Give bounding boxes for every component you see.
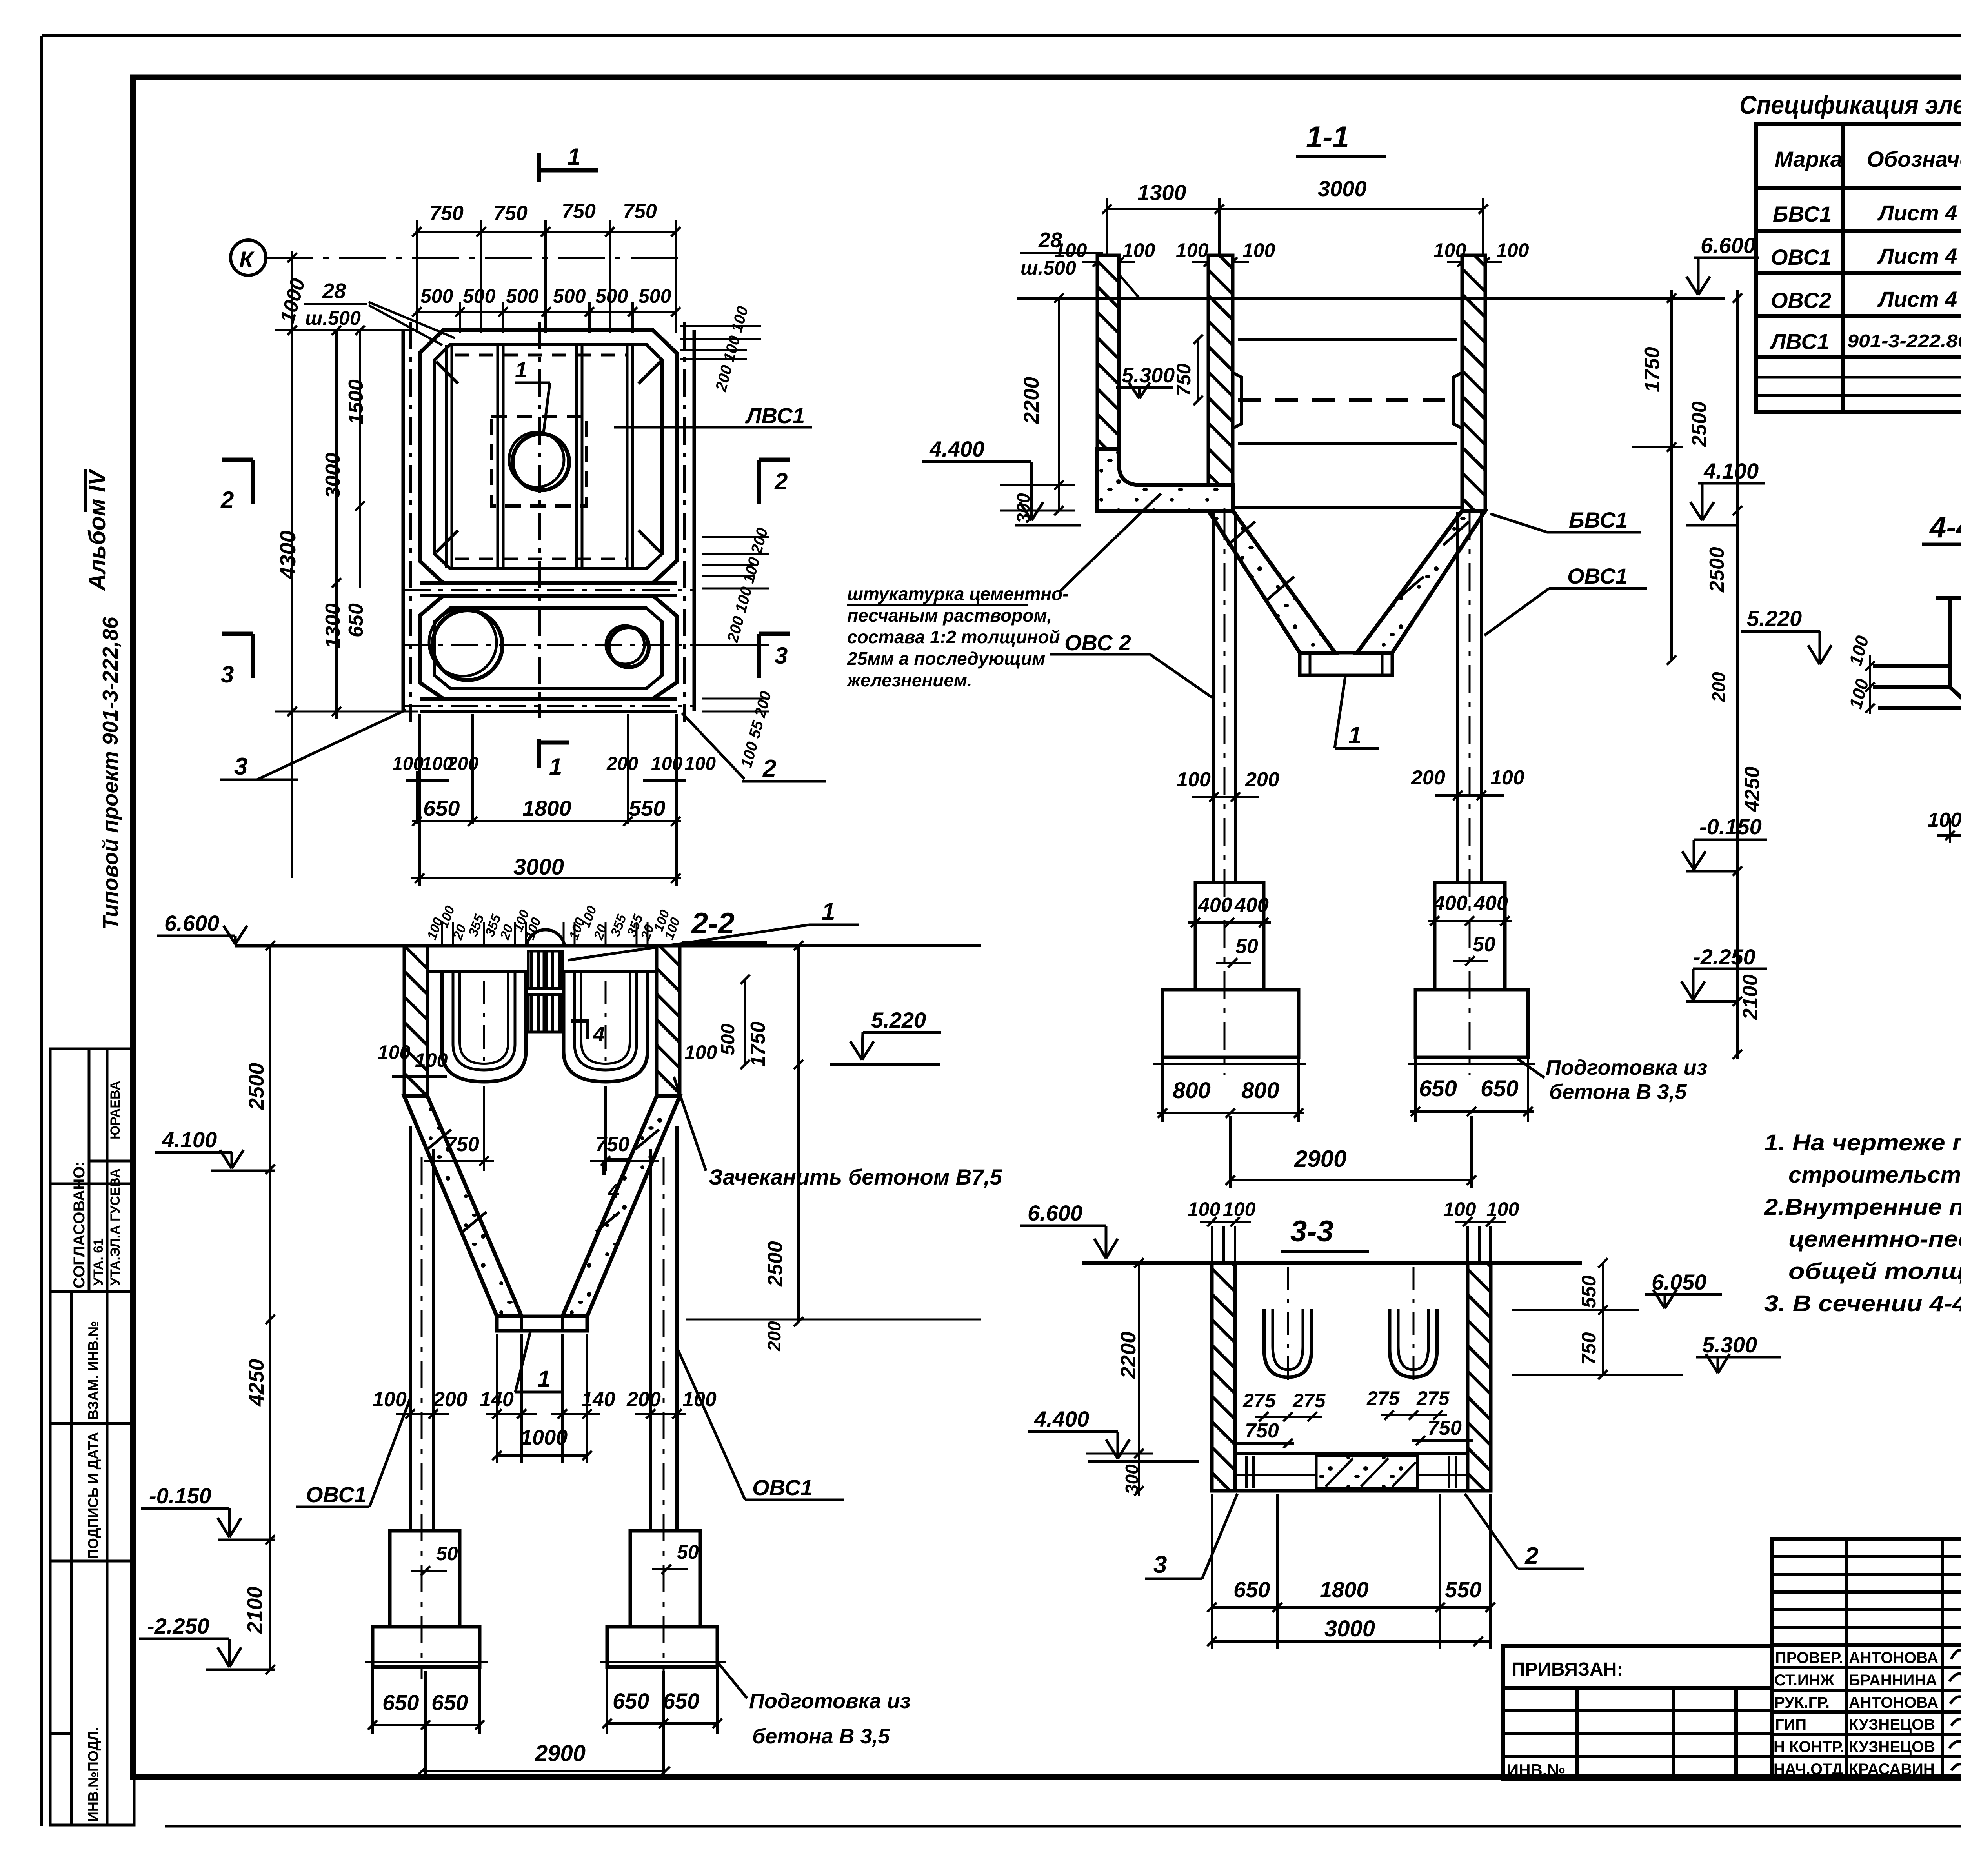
svg-text:200: 200 bbox=[447, 753, 478, 774]
lower chamber bbox=[420, 596, 677, 699]
svg-text:3. В сечении 4-4 лоток услов: 3. В сечении 4-4 лоток условно не показа… bbox=[1764, 1291, 1961, 1316]
svg-text:1-1: 1-1 bbox=[1306, 120, 1349, 154]
svg-text:Н КОНТР.: Н КОНТР. bbox=[1774, 1738, 1845, 1756]
top 100 100 labels bbox=[1188, 1198, 1519, 1220]
pedestals + footings bbox=[365, 1531, 726, 1667]
svg-text:100: 100 bbox=[651, 753, 682, 774]
leader 1 to circle bbox=[515, 382, 550, 384]
svg-text:500: 500 bbox=[595, 285, 628, 307]
svg-text:3000: 3000 bbox=[1318, 176, 1367, 201]
svg-text:750: 750 bbox=[1173, 363, 1195, 396]
rim line bbox=[235, 944, 799, 948]
svg-text:25мм а последующим: 25мм а последующим bbox=[847, 648, 1045, 669]
svg-text:КРАСАВИН: КРАСАВИН bbox=[1849, 1761, 1935, 1778]
svg-text:3: 3 bbox=[1153, 1551, 1167, 1578]
svg-text:500: 500 bbox=[553, 285, 586, 307]
svg-text:650: 650 bbox=[1481, 1076, 1519, 1101]
rim line bbox=[1017, 297, 1725, 300]
inner top band bbox=[427, 970, 657, 973]
svg-text:Лист 4: Лист 4 bbox=[1877, 244, 1957, 268]
svg-text:750: 750 bbox=[445, 1133, 479, 1156]
svg-text:КУЗНЕЦОВ: КУЗНЕЦОВ bbox=[1849, 1716, 1935, 1733]
left stamp: lower table (ИНВ №) bbox=[50, 1292, 134, 1825]
svg-text:1750: 1750 bbox=[1641, 347, 1664, 392]
svg-text:750: 750 bbox=[1578, 1332, 1600, 1365]
svg-text:50: 50 bbox=[436, 1543, 458, 1565]
svg-text:1750: 1750 bbox=[747, 1021, 769, 1067]
U troughs bbox=[442, 972, 648, 1082]
walls hatched bbox=[1097, 255, 1485, 511]
svg-text:АНТОНОВА: АНТОНОВА bbox=[1849, 1694, 1938, 1711]
svg-text:ЛВС1: ЛВС1 bbox=[745, 403, 805, 428]
svg-text:500: 500 bbox=[463, 285, 496, 307]
svg-text:200: 200 bbox=[1411, 766, 1445, 789]
svg-text:100: 100 bbox=[1486, 1198, 1519, 1220]
ПРИВЯЗАН table bbox=[1503, 1646, 1772, 1779]
svg-text:500: 500 bbox=[718, 1024, 739, 1055]
svg-text:Зачеканить бетоном В7,5: Зачеканить бетоном В7,5 bbox=[709, 1165, 1002, 1189]
svg-text:РУК.ГР.: РУК.ГР. bbox=[1774, 1694, 1830, 1711]
svg-text:550: 550 bbox=[1578, 1275, 1600, 1308]
svg-text:Обозначение: Обозначение bbox=[1867, 147, 1961, 171]
svg-text:400: 400 bbox=[1198, 894, 1232, 917]
svg-text:2900: 2900 bbox=[535, 1741, 586, 1766]
svg-text:200: 200 bbox=[433, 1388, 468, 1411]
svg-text:4.100: 4.100 bbox=[162, 1127, 217, 1152]
svg-text:5.220: 5.220 bbox=[871, 1008, 926, 1032]
svg-text:5.220: 5.220 bbox=[1747, 606, 1802, 631]
svg-text:275: 275 bbox=[1242, 1390, 1276, 1412]
sheet edge top bbox=[42, 34, 1961, 37]
svg-text:4.100: 4.100 bbox=[1703, 459, 1759, 483]
svg-text:бетона В 3,5: бетона В 3,5 bbox=[1549, 1080, 1687, 1104]
right side small dim stacks bbox=[680, 326, 769, 711]
svg-text:ПРИВЯЗАН:: ПРИВЯЗАН: bbox=[1512, 1659, 1623, 1680]
svg-text:200: 200 bbox=[1708, 672, 1729, 702]
U troughs bbox=[1264, 1267, 1437, 1388]
svg-text:4300: 4300 bbox=[275, 530, 300, 580]
svg-text:650: 650 bbox=[423, 796, 460, 821]
svg-text:2-2: 2-2 bbox=[691, 907, 735, 940]
svg-text:2200: 2200 bbox=[1020, 377, 1043, 424]
svg-text:200: 200 bbox=[606, 753, 638, 774]
svg-text:100: 100 bbox=[373, 1388, 407, 1411]
svg-text:2500: 2500 bbox=[1688, 401, 1711, 447]
svg-text:1: 1 bbox=[538, 1366, 550, 1392]
svg-text:650: 650 bbox=[613, 1689, 649, 1713]
rim line bbox=[1082, 1261, 1582, 1265]
svg-text:штукатурка цементно-: штукатурка цементно- bbox=[847, 584, 1068, 604]
svg-text:550: 550 bbox=[1445, 1577, 1481, 1602]
svg-text:3: 3 bbox=[234, 753, 247, 780]
svg-text:650: 650 bbox=[663, 1689, 699, 1713]
svg-text:ОВС2: ОВС2 bbox=[1771, 288, 1831, 313]
leader 1 below outlet bbox=[1335, 677, 1345, 748]
bottom leaders 2 and 3 bbox=[682, 713, 744, 779]
svg-text:50: 50 bbox=[1235, 935, 1258, 958]
svg-text:Альбом IV: Альбом IV bbox=[84, 468, 110, 591]
svg-text:2: 2 bbox=[220, 487, 234, 513]
svg-text:НАЧ.ОТД: НАЧ.ОТД bbox=[1774, 1761, 1843, 1778]
svg-text:-0.150: -0.150 bbox=[1699, 814, 1762, 839]
svg-text:1000: 1000 bbox=[520, 1426, 568, 1449]
chamfer inner corner lines bbox=[436, 362, 458, 384]
svg-text:УТА.ЭЛ.А ГУСЕВА: УТА.ЭЛ.А ГУСЕВА bbox=[108, 1168, 123, 1286]
section mark 1 below plan bbox=[539, 739, 569, 768]
svg-text:ЛВС1: ЛВС1 bbox=[1769, 329, 1829, 354]
svg-text:ПОДПИСЬ И ДАТА: ПОДПИСЬ И ДАТА bbox=[85, 1432, 101, 1559]
centerline horizontal through lower chamber bbox=[403, 644, 719, 646]
svg-text:1300: 1300 bbox=[322, 603, 344, 649]
svg-text:800: 800 bbox=[1173, 1078, 1211, 1103]
svg-text:2100: 2100 bbox=[243, 1587, 267, 1634]
svg-text:750: 750 bbox=[429, 202, 464, 225]
svg-text:4.400: 4.400 bbox=[1034, 1407, 1089, 1431]
sheet edge bottom bbox=[165, 1825, 1961, 1828]
svg-text:общей толщины 25мм. с послед: общей толщины 25мм. с последующим железн… bbox=[1788, 1259, 1961, 1284]
dashed hopper square bbox=[491, 416, 587, 506]
svg-text:ИНВ.№ПОДЛ.: ИНВ.№ПОДЛ. bbox=[85, 1727, 101, 1822]
svg-text:1800: 1800 bbox=[1320, 1577, 1369, 1602]
arc over central piece bbox=[526, 930, 565, 946]
svg-text:КУЗНЕЦОВ: КУЗНЕЦОВ bbox=[1849, 1738, 1935, 1756]
svg-text:3000: 3000 bbox=[322, 453, 344, 498]
svg-text:500: 500 bbox=[506, 285, 539, 307]
svg-text:СТ.ИНЖ: СТ.ИНЖ bbox=[1774, 1672, 1835, 1689]
svg-text:650: 650 bbox=[345, 603, 367, 637]
650 650 dims bbox=[382, 1689, 699, 1715]
left/right outer wall band verticals bbox=[402, 330, 405, 711]
dashed rows top/bottom of upper chamber bbox=[455, 354, 626, 357]
svg-text:-2.250: -2.250 bbox=[1693, 944, 1755, 969]
svg-text:2: 2 bbox=[762, 755, 776, 782]
dim row 500s bbox=[412, 302, 680, 333]
svg-text:750: 750 bbox=[595, 1133, 629, 1156]
svg-text:5.300: 5.300 bbox=[1702, 1332, 1757, 1357]
sheet edge left bbox=[40, 36, 43, 1826]
leader 1 under outlet bbox=[515, 1332, 530, 1392]
svg-text:901-3-222.86-КЖИ55.00.0: 901-3-222.86-КЖИ55.00.0 bbox=[1847, 331, 1961, 351]
section 4 marks bbox=[586, 1019, 589, 1039]
svg-text:1300: 1300 bbox=[1137, 180, 1186, 205]
400 400 + 50 dims bbox=[1198, 892, 1508, 958]
svg-text:4250: 4250 bbox=[1741, 766, 1764, 812]
svg-text:ОВС 2: ОВС 2 bbox=[1064, 630, 1131, 655]
section marks 3 (left/right) bbox=[222, 634, 790, 678]
svg-text:цементно-песчаным раствором с: цементно-песчаным раствором состава 1:2 … bbox=[1788, 1226, 1961, 1252]
svg-text:2900: 2900 bbox=[1294, 1146, 1346, 1172]
svg-text:Спецификация элементов на один: Спецификация элементов на один вихревой … bbox=[1739, 90, 1961, 119]
svg-text:2500: 2500 bbox=[245, 1063, 268, 1110]
svg-text:1500: 1500 bbox=[345, 379, 367, 425]
svg-text:750: 750 bbox=[493, 202, 528, 225]
svg-text:АНТОНОВА: АНТОНОВА bbox=[1849, 1649, 1938, 1667]
svg-text:ПРОВЕР.: ПРОВЕР. bbox=[1775, 1649, 1843, 1667]
svg-text:строительства. Смеситель II оч: строительства. Смеситель II очереди зерк… bbox=[1788, 1162, 1961, 1188]
svg-text:100: 100 bbox=[1490, 766, 1524, 789]
svg-text:4-4: 4-4 bbox=[1929, 511, 1961, 544]
svg-text:500: 500 bbox=[420, 285, 453, 307]
svg-text:100: 100 bbox=[415, 1049, 448, 1071]
svg-text:100: 100 bbox=[684, 753, 716, 774]
svg-text:ОВС1: ОВС1 bbox=[1771, 245, 1831, 269]
svg-text:ИНВ.№: ИНВ.№ bbox=[1507, 1761, 1565, 1779]
pedestals and footings bbox=[1153, 883, 1535, 1064]
outlet bbox=[1300, 653, 1392, 675]
internal beam lines upper chamber bbox=[445, 345, 448, 568]
svg-text:200: 200 bbox=[626, 1388, 661, 1411]
svg-text:Подготовка из: Подготовка из bbox=[749, 1689, 911, 1713]
svg-text:2500: 2500 bbox=[764, 1241, 787, 1287]
bottom small dims bbox=[392, 753, 716, 774]
svg-text:6.600: 6.600 bbox=[1701, 233, 1755, 258]
svg-text:Лист 4: Лист 4 bbox=[1877, 200, 1957, 225]
svg-text:ОВС1: ОВС1 bbox=[306, 1482, 366, 1507]
svg-text:4: 4 bbox=[593, 1023, 605, 1046]
leg dims bbox=[1177, 766, 1524, 791]
right dim chain bbox=[686, 941, 981, 1326]
svg-text:железнением.: железнением. bbox=[846, 670, 972, 690]
275 dims bbox=[1242, 1387, 1450, 1412]
svg-text:100: 100 bbox=[1928, 809, 1961, 832]
svg-text:200: 200 bbox=[1245, 768, 1279, 791]
svg-text:бетона В 3,5: бетона В 3,5 bbox=[752, 1725, 890, 1748]
svg-text:-0.150: -0.150 bbox=[149, 1483, 211, 1508]
svg-text:300: 300 bbox=[1013, 493, 1033, 523]
svg-text:750: 750 bbox=[1245, 1419, 1279, 1442]
svg-text:650: 650 bbox=[1233, 1577, 1270, 1602]
left dim chain bbox=[266, 941, 275, 1674]
svg-text:Лист 4: Лист 4 bbox=[1877, 287, 1957, 311]
svg-text:650: 650 bbox=[1419, 1076, 1457, 1101]
svg-text:2500: 2500 bbox=[1706, 547, 1728, 593]
tiny rotated dims above rim bbox=[424, 904, 683, 942]
svg-text:песчаным раствором,: песчаным раствором, bbox=[847, 605, 1052, 626]
outlet bbox=[497, 1316, 587, 1331]
svg-text:ВЗАМ. ИНВ.№: ВЗАМ. ИНВ.№ bbox=[85, 1321, 101, 1420]
svg-text:1: 1 bbox=[515, 357, 527, 382]
svg-text:800: 800 bbox=[1241, 1078, 1279, 1103]
svg-text:2.Внутренние поверхности емк: 2.Внутренние поверхности емкости заторкр… bbox=[1764, 1194, 1961, 1220]
svg-text:3: 3 bbox=[221, 661, 234, 688]
svg-text:3: 3 bbox=[775, 642, 788, 669]
svg-text:750: 750 bbox=[623, 200, 657, 223]
svg-text:4250: 4250 bbox=[245, 1359, 268, 1407]
svg-text:100: 100 bbox=[1496, 239, 1529, 261]
svg-text:100: 100 bbox=[1054, 239, 1087, 261]
svg-text:Марка: Марка bbox=[1775, 147, 1843, 171]
svg-text:1: 1 bbox=[1348, 722, 1361, 748]
hopper circles bbox=[513, 434, 569, 490]
svg-text:ЮРАЕВА: ЮРАЕВА bbox=[108, 1081, 123, 1139]
svg-text:275: 275 bbox=[1366, 1387, 1400, 1409]
100 dim labels above walls bbox=[1054, 239, 1529, 261]
svg-text:650: 650 bbox=[431, 1690, 468, 1715]
section mark 1 above plan bbox=[539, 153, 598, 182]
plan bottom lines bbox=[420, 697, 677, 701]
svg-text:БВС1: БВС1 bbox=[1569, 508, 1628, 532]
svg-text:ГИП: ГИП bbox=[1775, 1716, 1806, 1733]
top dims 1300 3000 bbox=[1102, 198, 1488, 255]
svg-text:4.400: 4.400 bbox=[929, 437, 984, 461]
svg-text:1800: 1800 bbox=[522, 796, 571, 821]
svg-text:6.600: 6.600 bbox=[164, 911, 219, 935]
top dim row 750s bbox=[412, 220, 680, 333]
section marks 2 (left/right) bbox=[222, 460, 790, 504]
lower chamber circles bbox=[433, 610, 502, 680]
band between chambers bbox=[420, 581, 677, 585]
svg-text:3-3: 3-3 bbox=[1290, 1215, 1333, 1248]
svg-text:550: 550 bbox=[629, 796, 665, 821]
svg-text:6.600: 6.600 bbox=[1028, 1201, 1082, 1225]
svg-text:275: 275 bbox=[1416, 1387, 1450, 1409]
bottom dims bbox=[1212, 1494, 1490, 1649]
svg-text:4: 4 bbox=[608, 1179, 620, 1203]
svg-text:3000: 3000 bbox=[1324, 1616, 1375, 1641]
svg-text:К: К bbox=[239, 247, 255, 273]
svg-text:Подготовка из: Подготовка из bbox=[1546, 1056, 1707, 1079]
svg-text:200: 200 bbox=[764, 1321, 784, 1352]
svg-text:400: 400 bbox=[1473, 892, 1508, 915]
svg-text:ОВС1: ОВС1 bbox=[1567, 564, 1628, 588]
svg-text:6.050: 6.050 bbox=[1652, 1270, 1706, 1294]
svg-text:50: 50 bbox=[1473, 933, 1495, 956]
svg-text:Типовой проект 901-3-222,86: Типовой проект 901-3-222,86 bbox=[98, 617, 122, 930]
800 800 / 650 650 bbox=[1173, 1076, 1519, 1103]
Штукатурка note bbox=[846, 584, 1068, 690]
plan outer rect upper chamber (chamfered) bbox=[420, 330, 677, 583]
legs bbox=[410, 1126, 677, 1679]
dims under funnel bbox=[373, 1388, 717, 1411]
central bolt plates bbox=[528, 951, 562, 1032]
svg-text:100: 100 bbox=[1177, 768, 1211, 791]
svg-text:28: 28 bbox=[322, 279, 346, 303]
svg-text:-2.250: -2.250 bbox=[147, 1614, 209, 1638]
svg-text:400: 400 bbox=[1433, 892, 1468, 915]
svg-text:БРАННИНА: БРАННИНА bbox=[1849, 1672, 1937, 1689]
svg-text:2: 2 bbox=[774, 468, 788, 495]
funnel slopes bbox=[1208, 511, 1335, 653]
svg-text:1. На чертеже показан Вихрев: 1. На чертеже показан Вихревой смеситель… bbox=[1764, 1130, 1961, 1155]
svg-text:100: 100 bbox=[1242, 239, 1275, 261]
axis K bbox=[231, 240, 687, 275]
floor slab bbox=[1235, 1452, 1468, 1455]
svg-text:состава 1:2 толщиной: состава 1:2 толщиной bbox=[847, 627, 1060, 647]
svg-text:СОГЛАСОВАНО:: СОГЛАСОВАНО: bbox=[71, 1161, 88, 1288]
right dims bbox=[1512, 1258, 1683, 1379]
svg-text:1: 1 bbox=[822, 898, 835, 925]
svg-text:1: 1 bbox=[568, 144, 580, 170]
svg-text:275: 275 bbox=[1292, 1390, 1326, 1412]
svg-text:2200: 2200 bbox=[1117, 1332, 1140, 1379]
svg-text:ш.500: ш.500 bbox=[305, 307, 361, 329]
right dim chains bbox=[1632, 290, 1742, 1059]
svg-text:100: 100 bbox=[1176, 239, 1209, 261]
trough bottom slab bbox=[1097, 449, 1233, 511]
svg-text:2100: 2100 bbox=[1739, 974, 1762, 1020]
outer walls hatched bbox=[404, 946, 427, 1096]
left stamp: upper table (СОГЛАСОВАНО) bbox=[50, 1049, 134, 1292]
svg-text:500: 500 bbox=[639, 285, 671, 307]
svg-text:750: 750 bbox=[562, 200, 596, 223]
legs bbox=[1214, 512, 1481, 1075]
walls bbox=[1212, 1263, 1235, 1491]
svg-text:БВС1: БВС1 bbox=[1773, 202, 1832, 226]
bunker internals bbox=[1233, 339, 1462, 508]
svg-text:1: 1 bbox=[549, 753, 562, 780]
svg-text:750: 750 bbox=[1428, 1417, 1462, 1439]
svg-text:650: 650 bbox=[382, 1690, 419, 1715]
svg-text:400: 400 bbox=[1234, 894, 1269, 917]
funnel slopes bbox=[404, 1096, 522, 1316]
svg-text:100: 100 bbox=[684, 1041, 717, 1063]
svg-text:50: 50 bbox=[677, 1541, 699, 1563]
650 1800 550 bbox=[423, 796, 665, 821]
svg-text:3000: 3000 bbox=[513, 854, 564, 880]
svg-text:ОВС1: ОВС1 bbox=[752, 1475, 813, 1500]
svg-text:100: 100 bbox=[1122, 239, 1155, 261]
svg-text:100: 100 bbox=[378, 1041, 411, 1063]
svg-text:УТА. 61: УТА. 61 bbox=[91, 1238, 106, 1286]
svg-text:2: 2 bbox=[1524, 1543, 1538, 1570]
